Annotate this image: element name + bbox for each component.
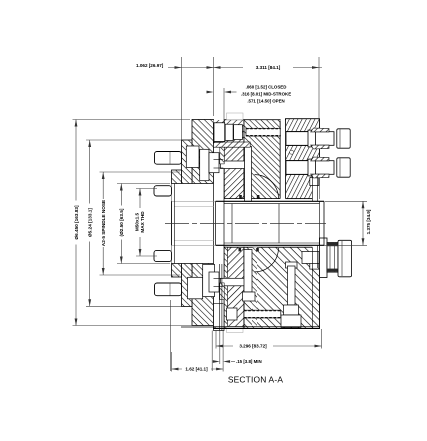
thread lines: [174, 205, 214, 207]
svg-text:.571 [14.50] OPEN: .571 [14.50] OPEN: [247, 98, 284, 103]
piston channel bottom: [244, 310, 281, 318]
counterbore row3: [172, 249, 178, 263]
svg-text:Ø6.450 [163.83]: Ø6.450 [163.83]: [74, 205, 79, 240]
svg-text:MAX THD: MAX THD: [140, 211, 145, 233]
bore seams: [231, 204, 233, 243]
bolt head lines: [169, 152, 171, 296]
flange center bore: [172, 184, 214, 264]
bolt row2: [154, 186, 172, 196]
dim line D3: [102, 172, 104, 275]
bottom double edge: [214, 326, 320, 328]
flange pilot boss: [172, 170, 182, 277]
bottom tab: [227, 327, 244, 333]
white cutouts: [172, 113, 325, 333]
stud head: [284, 305, 299, 315]
cap lines: [340, 129, 342, 276]
svg-text:M50x1.5: M50x1.5: [135, 212, 140, 231]
left dim arrows: [75, 120, 142, 326]
port channel F3: [302, 252, 319, 264]
joint block B3: [209, 153, 219, 173]
piston bottom: [227, 308, 238, 320]
labyrinth step lower: [220, 283, 224, 300]
housing lower: [244, 247, 320, 328]
channel thread edges: [244, 129, 281, 318]
bolts left side: [154, 152, 182, 296]
svg-text:(Ø2.50 [63.5]: (Ø2.50 [63.5]: [119, 208, 124, 236]
cylinder body lower-left: [214, 247, 245, 328]
top tab: [227, 113, 244, 120]
tube end faces: [171, 201, 173, 245]
flange bore edges: [172, 183, 214, 185]
arc top: [255, 175, 279, 199]
svg-text:3.296 [83.72]: 3.296 [83.72]: [239, 343, 267, 348]
step gap bottom: [221, 278, 245, 286]
joint block B1m: [188, 277, 203, 299]
arc bottom: [255, 248, 279, 272]
svg-text:SECTION A-A: SECTION A-A: [228, 375, 283, 385]
fitting F1: [286, 129, 350, 148]
stud shaft: [288, 266, 296, 305]
joint block B2m: [203, 264, 215, 296]
column joints: [214, 141, 224, 143]
piston housing upper-right: [244, 120, 280, 199]
bearing lines: [317, 176, 319, 201]
bolt row3: [154, 250, 172, 261]
flange main plate: [192, 120, 214, 326]
housing cap upper: [286, 119, 320, 199]
cylinder cap band over rod: [214, 120, 251, 123]
ext lines left dims: [73, 119, 191, 121]
central bore band: [172, 201, 325, 245]
joint block B3m: [209, 272, 219, 292]
o-ring seals: [239, 195, 260, 251]
fitting hex wedges: [311, 128, 329, 178]
cylinder body upper-left: [224, 120, 244, 199]
slot top: [245, 147, 252, 202]
dim line D4: [120, 184, 122, 264]
labyrinth step upper: [220, 147, 224, 164]
dim line D5: [139, 189, 141, 209]
drawtube nut lines: [218, 264, 220, 331]
bearing gap upper: [312, 176, 319, 201]
piston channel top: [246, 128, 281, 136]
port channel F1: [286, 132, 319, 146]
seam bottom block: [311, 247, 313, 328]
step gap top: [221, 161, 245, 169]
centerline: [165, 222, 326, 224]
stud nut pocket: [281, 315, 301, 327]
left dim texts (rotated): [72, 199, 145, 247]
seal strip lower: [224, 247, 227, 328]
right dimension 1.375: [320, 201, 367, 245]
port channel F2: [286, 161, 319, 175]
joint block B1: [186, 146, 199, 168]
svg-text:3.311 [84.1]: 3.311 [84.1]: [256, 65, 281, 70]
svg-text:1.62 [41.1]: 1.62 [41.1]: [185, 367, 208, 372]
svg-text:.060 [1.52] CLOSED: .060 [1.52] CLOSED: [246, 84, 287, 89]
bore outer walls: [216, 200, 324, 202]
joint block B2: [200, 149, 209, 180]
block below slot: [243, 292, 256, 301]
svg-text:1.375 [34.9]: 1.375 [34.9]: [366, 209, 371, 234]
svg-text:1.062 [26.97]: 1.062 [26.97]: [136, 63, 164, 68]
svg-text:A2-5 SPINDLE NOSE: A2-5 SPINDLE NOSE: [101, 200, 106, 246]
piston blocks top: [214, 123, 225, 142]
dim line D2: [89, 140, 91, 306]
svg-text:Ø5.24 [133.1]: Ø5.24 [133.1]: [87, 208, 92, 237]
dimensions: [73, 120, 196, 372]
slot bottom: [244, 250, 252, 293]
seam column top: [280, 120, 285, 201]
small holes: [290, 150, 294, 154]
fitting F3: [320, 238, 352, 278]
fitting F2: [286, 158, 350, 177]
bolt row1: [155, 152, 182, 165]
stud washer: [286, 262, 298, 268]
part detail lines: [172, 142, 325, 330]
stroke dimension: [224, 88, 237, 120]
bearing gap lower: [312, 245, 319, 268]
svg-text:.15 [3.8] MIN: .15 [3.8] MIN: [236, 359, 262, 364]
joint hatch band over rod: [214, 142, 251, 147]
bottom dims: [172, 329, 322, 372]
flange rim: [182, 140, 193, 307]
dim line D1: [75, 120, 77, 326]
top dimension 1.062 / 3.311: [168, 57, 322, 140]
bolt row4: [155, 283, 182, 296]
counterbore row2: [172, 184, 178, 198]
drawtube column: [214, 123, 225, 331]
seal strip right of slot: [252, 247, 257, 328]
svg-text:.316 [8.01] MID-STROKE: .316 [8.01] MID-STROKE: [241, 91, 291, 96]
bore inner walls: [224, 203, 320, 205]
